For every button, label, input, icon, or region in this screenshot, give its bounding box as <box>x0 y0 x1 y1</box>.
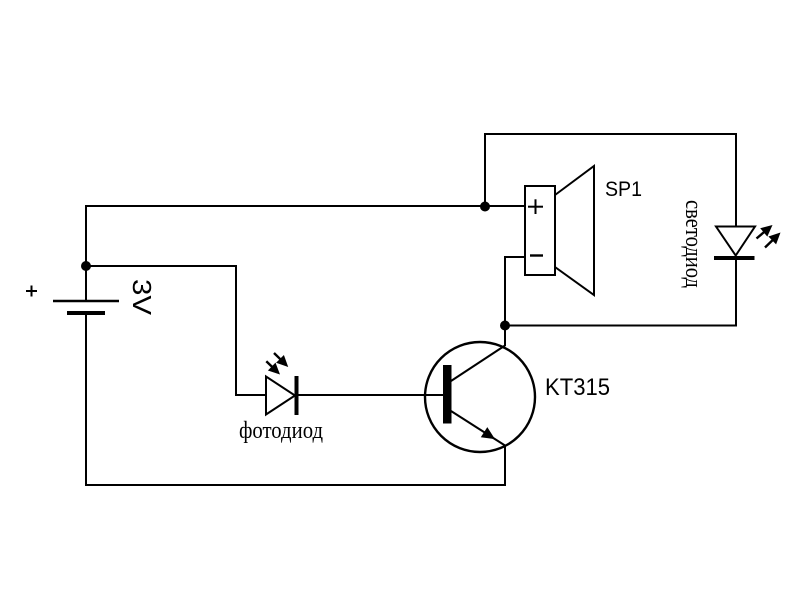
svg-text:3V: 3V <box>127 279 157 316</box>
wire junction to photodiode anode <box>86 266 267 395</box>
speaker SP1 horn <box>555 166 594 295</box>
transistor Q1 emitter arrowhead <box>481 427 495 439</box>
svg-text:светодиод: светодиод <box>680 200 706 288</box>
speaker SP1 minus symbol <box>530 254 543 256</box>
photodiode VD1 triangle <box>266 377 295 415</box>
led VD2 cathode bar <box>714 256 755 260</box>
svg-text:фотодиод: фотодиод <box>239 418 323 444</box>
led arrow 2 <box>765 233 781 248</box>
wire photodiode to base <box>297 394 445 396</box>
svg-text:KT315: KT315 <box>545 374 610 401</box>
battery GB1 plate - (short thick) <box>67 311 105 315</box>
transistor Q1 emitter line <box>451 411 505 446</box>
node battery junction <box>81 261 91 271</box>
wire node to led cathode <box>505 258 736 326</box>
wire collector to node <box>504 326 506 346</box>
label battery + <box>26 286 37 297</box>
transistor Q1 collector line <box>451 346 505 382</box>
led VD2 triangle <box>716 227 755 256</box>
speaker SP1 plus symbol <box>528 199 543 214</box>
node speaker+ junction <box>480 202 490 212</box>
photodiode VD1 cathode bar <box>295 376 299 415</box>
battery GB1 plate + (long) <box>53 300 119 302</box>
node collector junction <box>500 321 510 331</box>
speaker SP1 box <box>525 186 555 275</box>
photodiode arrow 1 <box>274 353 288 367</box>
wire node to led anode <box>485 134 736 227</box>
wire battery+ to speaker+ <box>86 206 525 301</box>
transistor Q1 base bar <box>443 365 452 424</box>
svg-text:SP1: SP1 <box>605 178 642 201</box>
transistor Q1 body circle <box>425 342 535 452</box>
wire node to speaker minus <box>505 257 525 326</box>
photodiode arrow 2 <box>266 361 280 374</box>
wire battery- to emitter <box>86 313 505 485</box>
led arrow 1 <box>757 225 773 239</box>
